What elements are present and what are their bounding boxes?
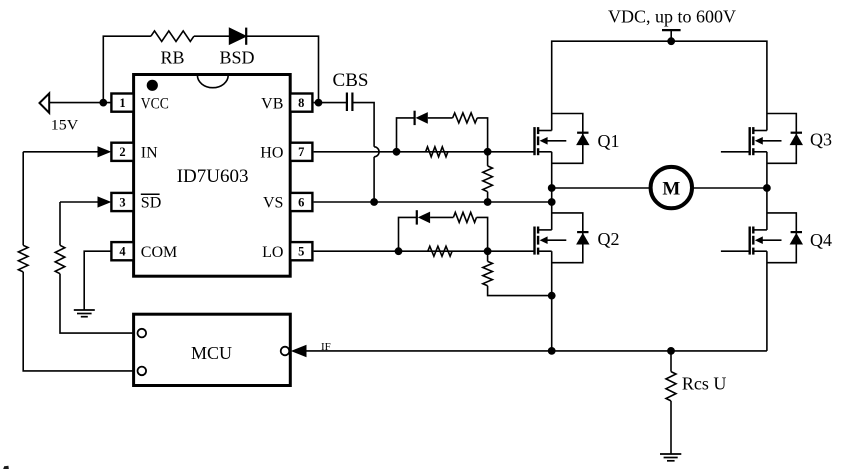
wire RB to BSD [194, 35, 229, 37]
node HO branch junction [393, 148, 401, 156]
wire IF return rail [307, 350, 767, 352]
wire 15V input lead [49, 102, 111, 104]
transistor Q4 [721, 213, 832, 263]
svg-text:Q3: Q3 [810, 130, 832, 150]
svg-text:BSD: BSD [219, 48, 254, 68]
svg-text:8: 8 [298, 96, 304, 110]
svg-text:2: 2 [119, 145, 125, 159]
svg-text:IN: IN [141, 145, 158, 162]
svg-text:5: 5 [298, 245, 304, 259]
pin 7 HO [260, 143, 312, 162]
pin 6 VS [263, 193, 312, 212]
wire SD pulldown branch [59, 202, 61, 245]
wire LO speedup branch riser [399, 217, 418, 251]
15V input terminal symbol [40, 93, 79, 133]
IC U1 gate driver ID7U603 body [134, 75, 291, 277]
svg-text:Q2: Q2 [598, 229, 620, 249]
VDC supply terminal [608, 7, 736, 46]
pin 2 IN [111, 143, 158, 162]
svg-text:7: 7 [298, 145, 304, 159]
wire SD resistor to MCU [60, 274, 134, 333]
wire HO line [314, 151, 535, 153]
svg-text:Q1: Q1 [598, 131, 620, 151]
svg-text:COM: COM [141, 244, 177, 261]
pin 5 LO [262, 242, 312, 261]
svg-text:Rcs U: Rcs U [682, 374, 727, 394]
wire Q4 source to IF rail [766, 251, 768, 351]
svg-text:VDC, up to 600V: VDC, up to 600V [608, 7, 736, 27]
wire BSD to VB [246, 36, 319, 102]
wire IN resistor to MCU [23, 272, 133, 371]
wire Q2 source to IF rail [548, 251, 556, 355]
node Q2 gate junction [484, 247, 492, 255]
svg-text:VB: VB [261, 95, 283, 112]
transistor Q3 [721, 114, 832, 164]
svg-text:IF: IF [321, 341, 331, 353]
node LO branch junction [395, 247, 403, 255]
MCU block [134, 314, 291, 385]
node phase U (motor left) [548, 184, 556, 192]
resistor LO speedup branch [453, 212, 487, 251]
wire VCC riser to bootstrap loop [103, 36, 151, 102]
resistor RB [151, 31, 194, 68]
wire IN input with arrowhead [23, 146, 111, 157]
wire motor left lead [552, 187, 650, 189]
pin 8 VB [261, 94, 312, 113]
page corner artifact [3, 466, 9, 469]
svg-text:4: 4 [119, 245, 126, 259]
ground COM [74, 310, 95, 317]
wire VS line [314, 198, 556, 206]
wire motor right lead [693, 184, 771, 192]
svg-text:6: 6 [298, 195, 304, 209]
pin 4 COM [111, 242, 177, 261]
svg-text:LO: LO [262, 244, 283, 261]
resistor on SD line [55, 245, 65, 273]
svg-text:3: 3 [119, 195, 125, 209]
node VCC junction [99, 99, 107, 107]
svg-text:MCU: MCU [191, 343, 232, 363]
pin 1 VCC [111, 94, 168, 113]
transistor Q2 [535, 213, 620, 263]
diode LO speedup (pointing left) [417, 210, 454, 224]
wire CBS to VS with hop over HO line [352, 103, 379, 206]
node Rcs junction [667, 347, 675, 355]
wire IN pulldown branch [22, 152, 24, 246]
wire HO speedup branch riser [397, 118, 416, 152]
resistor on IN line [18, 245, 28, 272]
resistor Rcs U [666, 351, 726, 454]
wire Q1 source to Q2 drain leg [551, 152, 553, 230]
wire VDC bus [552, 41, 767, 130]
wire LO line [314, 250, 535, 252]
svg-text:CBS: CBS [333, 70, 369, 91]
diode HO speedup (pointing left) [415, 111, 453, 125]
svg-text:VS: VS [263, 195, 283, 212]
svg-text:1: 1 [119, 96, 125, 110]
transistor Q1 [535, 114, 620, 164]
node VB junction [314, 99, 347, 107]
svg-text:RB: RB [160, 48, 184, 68]
wire Q3 source to Q4 drain leg [766, 152, 768, 230]
diode BSD [219, 28, 254, 68]
wire SD input with arrowhead [60, 196, 111, 207]
motor M [651, 167, 692, 208]
wire COM to ground [84, 251, 111, 310]
resistor HO speedup branch [453, 113, 488, 152]
svg-text:M: M [662, 178, 680, 199]
svg-text:SD: SD [141, 195, 161, 212]
svg-text:15V: 15V [51, 118, 79, 134]
svg-text:ID7U603: ID7U603 [177, 166, 249, 187]
svg-text:Q4: Q4 [810, 230, 832, 250]
pin 3 SD [111, 193, 161, 212]
IF feedback arrowhead into MCU [291, 341, 331, 357]
node Q1 gate junction [484, 148, 492, 156]
capacitor CBS [333, 70, 369, 111]
ground Rcs [660, 454, 681, 461]
resistor HO series gate [426, 147, 448, 157]
svg-text:VCC: VCC [141, 95, 169, 112]
resistor Q2 gate-source [483, 251, 552, 295]
resistor Q1 gate-source [483, 152, 493, 206]
resistor LO series gate [428, 246, 452, 256]
svg-text:HO: HO [260, 145, 283, 162]
